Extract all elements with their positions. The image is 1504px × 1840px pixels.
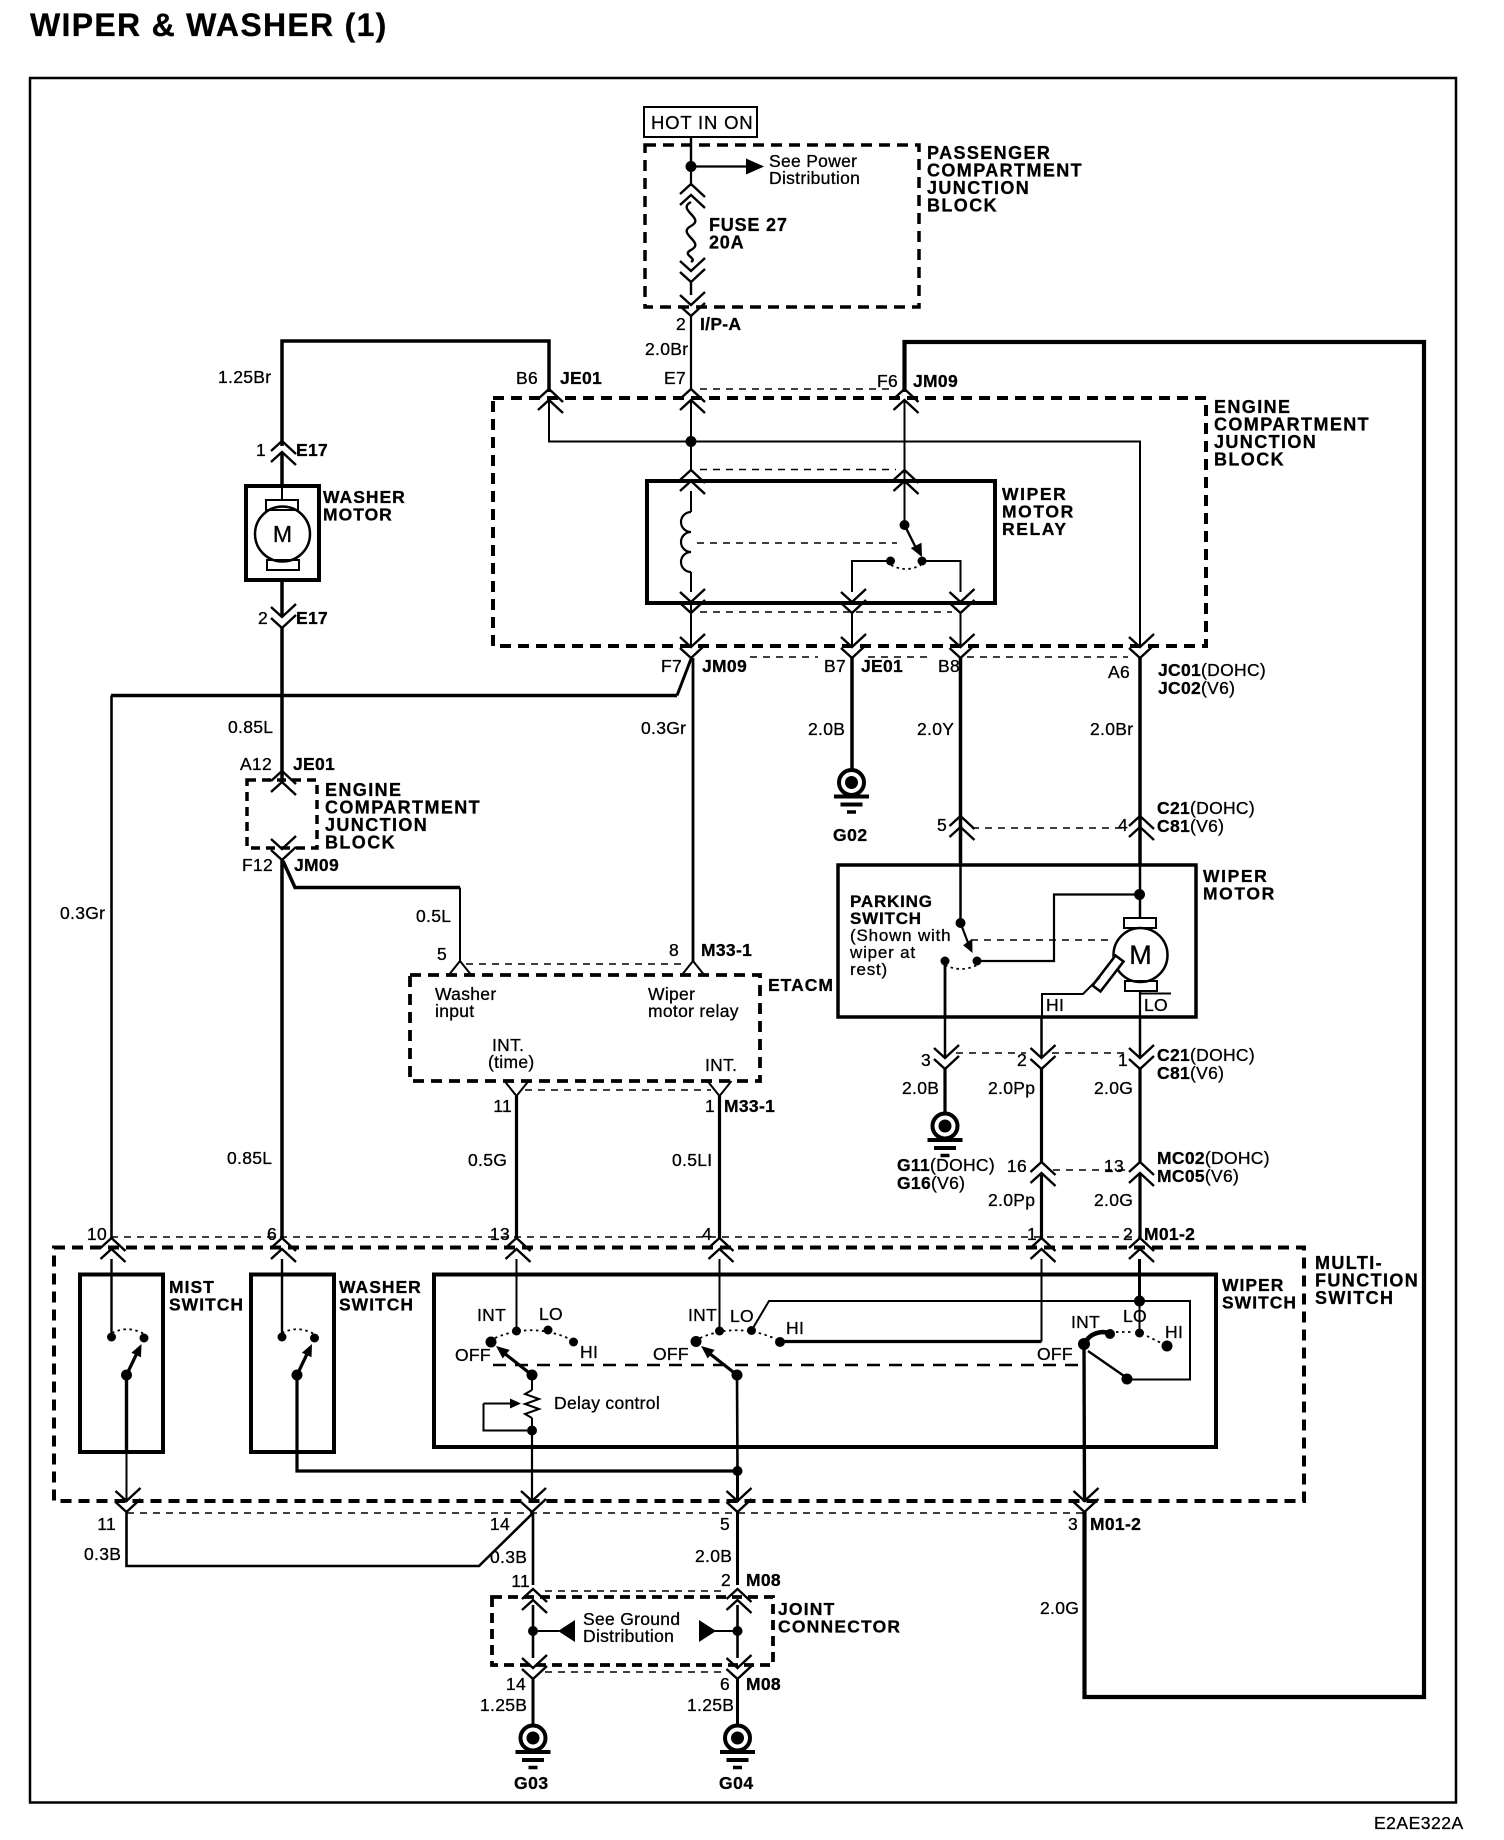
ETACM box [410, 975, 760, 1081]
wire E7 internal [690, 399, 692, 442]
svg-text:G02: G02 [833, 825, 868, 845]
HI terminal notch [1042, 977, 1100, 1017]
svg-text:E17: E17 [296, 440, 328, 460]
connector 2 E17 [258, 604, 328, 628]
washer contact right [310, 1334, 319, 1343]
wire junction to A6 [691, 442, 1140, 649]
parking switch arm [961, 923, 973, 953]
wire wiper sw1 feed [516, 1259, 518, 1331]
node washer junction [733, 1466, 743, 1476]
delay control resistor [525, 1375, 539, 1431]
wire F7 branch diagonal [111, 659, 691, 696]
thin dashed connector row ECJB top [700, 388, 893, 390]
svg-text:I/P-A: I/P-A [700, 314, 741, 334]
wire E17-1 to motor [280, 452, 284, 486]
ground G02 [833, 770, 869, 845]
svg-text:Delay control: Delay control [554, 1393, 660, 1413]
connector F12 JM09 [242, 836, 339, 875]
wire coil to F7 [690, 603, 692, 648]
diagram code E2AE322A [1374, 1813, 1464, 1833]
label See Ground Distribution [583, 1609, 680, 1646]
label 0.3Gr right [641, 718, 686, 738]
label 2.0B bottom [695, 1546, 732, 1566]
label PARKING SWITCH [849, 892, 951, 979]
svg-text:F7: F7 [661, 656, 682, 676]
wire 2.0B to G11 [943, 1069, 946, 1114]
svg-text:1.25B: 1.25B [687, 1695, 734, 1715]
label 2.0Br [645, 339, 688, 359]
svg-text:MC02(DOHC): MC02(DOHC) [1157, 1148, 1270, 1168]
label LO sw1 [539, 1304, 563, 1324]
svg-text:MOTOR: MOTOR [1203, 884, 1276, 904]
wire washer feed top-left [282, 341, 549, 446]
ETACM pin 5 [437, 944, 472, 976]
wire motor to E17-2 [280, 580, 284, 617]
label WIPER MOTOR [1203, 866, 1276, 904]
label INT sw1 [477, 1305, 506, 1325]
fuse FUSE 27 20A [687, 202, 696, 262]
connector 13 M01-2 [490, 1224, 531, 1262]
wire parking switch feed [959, 866, 962, 923]
label OFF sw1 [455, 1345, 491, 1365]
thin dashed parking to motor link [971, 939, 1112, 941]
node JC right [733, 1626, 743, 1636]
svg-text:HI: HI [580, 1342, 598, 1362]
label 0.85L lower [227, 1148, 272, 1168]
label HI motor [1046, 995, 1064, 1015]
svg-text:F6: F6 [877, 371, 898, 391]
ground G11 G16 [897, 1114, 995, 1194]
svg-text:2.0G: 2.0G [1040, 1598, 1079, 1618]
svg-text:2.0B: 2.0B [695, 1546, 732, 1566]
svg-text:input: input [435, 1001, 474, 1021]
svg-text:G16(V6): G16(V6) [897, 1173, 965, 1193]
label ETACM [768, 975, 834, 995]
wire to B7 chevron [851, 613, 853, 648]
wire 1.25B right [736, 1679, 739, 1726]
thin dashed link 16-13 [1053, 1169, 1126, 1171]
connector 1 M01-2 [1027, 1224, 1056, 1262]
svg-text:0.5G: 0.5G [468, 1150, 507, 1170]
label MIST SWITCH [169, 1277, 244, 1315]
connector A6 JC01 JC02 [1108, 634, 1266, 698]
thin dashed relay actuator link [697, 542, 897, 544]
washer switch arm [297, 1344, 312, 1375]
svg-text:G11(DOHC): G11(DOHC) [897, 1155, 995, 1175]
connector 2 I/P-A [680, 292, 705, 316]
sw3 contact HI [1162, 1341, 1173, 1352]
connector relay B8 bottom [950, 589, 975, 613]
svg-text:E7: E7 [664, 368, 686, 388]
wire B8 2.0Y [959, 658, 963, 866]
thin dashed connector row M01-2 bottom [127, 1512, 1085, 1514]
wire HI to pin2 [1040, 1017, 1043, 1058]
svg-text:motor relay: motor relay [648, 1001, 739, 1021]
svg-text:E17: E17 [296, 608, 328, 628]
dotted arc sw1 [495, 1330, 570, 1339]
label ENGINE COMPARTMENT JUNCTION BLOCK [1214, 397, 1370, 470]
washer motor box [246, 486, 319, 580]
svg-text:M: M [273, 521, 292, 547]
svg-text:13: 13 [490, 1224, 510, 1244]
svg-text:2: 2 [676, 314, 686, 334]
svg-text:INT.: INT. [705, 1055, 737, 1075]
connector 14 M08 bottom [506, 1655, 547, 1694]
wire sw2 LO to pin1 route [752, 1301, 1140, 1331]
svg-text:HI: HI [786, 1318, 804, 1338]
dotted arc parking contacts [945, 965, 977, 969]
wire 0.85L lower [280, 860, 284, 1238]
relay switch arm [905, 525, 923, 557]
connector 2 M01-2 [1123, 1224, 1195, 1262]
wire 0.5G [515, 1096, 518, 1238]
label 0.3B mid [490, 1547, 527, 1567]
label 2 M08 [721, 1570, 781, 1590]
svg-text:1.25B: 1.25B [480, 1695, 527, 1715]
svg-text:4: 4 [1118, 815, 1128, 835]
wire JC right [736, 1605, 739, 1658]
label 2.0G lower [1094, 1190, 1133, 1210]
sw1 contact INT [512, 1327, 521, 1336]
label 0.5G [468, 1150, 507, 1170]
svg-text:A12: A12 [240, 754, 272, 774]
svg-text:20A: 20A [709, 233, 744, 253]
svg-text:11: 11 [511, 1571, 530, 1591]
passenger compartment junction block box [645, 145, 919, 307]
svg-text:B7: B7 [824, 656, 846, 676]
wire pin1 down and HI link [780, 1259, 1042, 1342]
dotted arc sw2 [700, 1330, 776, 1339]
label 1.25B left [480, 1695, 527, 1715]
connector 11 bottom [97, 1488, 140, 1534]
svg-text:11: 11 [493, 1096, 512, 1116]
connector 14 bottom [490, 1488, 546, 1534]
svg-text:LO: LO [1144, 995, 1168, 1015]
connector relay switch top [894, 470, 919, 494]
label WASHER SWITCH [339, 1277, 422, 1315]
sw2 contact OFF [691, 1336, 702, 1347]
wire 0.85L upper [280, 628, 284, 781]
connector B7 JE01 [824, 634, 903, 676]
sw3 pivot node [1122, 1374, 1133, 1385]
title [30, 7, 388, 43]
wire 0.3B down [532, 1513, 535, 1585]
svg-text:Distribution: Distribution [769, 168, 860, 188]
wire 0.3Gr to ETACM pin8 [692, 658, 695, 961]
connector 5 C21 [937, 815, 975, 840]
svg-text:13: 13 [1104, 1156, 1124, 1176]
label 0.3B left [84, 1544, 121, 1564]
svg-text:HI: HI [1165, 1322, 1183, 1342]
connector 16 MC02 [1007, 1156, 1056, 1186]
svg-text:16: 16 [1007, 1156, 1027, 1176]
sw1 pivot node [527, 1370, 538, 1381]
svg-text:14: 14 [506, 1674, 526, 1694]
ground G04 [719, 1726, 755, 1794]
wire junction to 5 [736, 1471, 739, 1502]
wire A6 2.0Br [1138, 658, 1142, 866]
wire fuse to I/P-A [690, 281, 692, 295]
label LO motor [1144, 995, 1168, 1015]
wire 1.25B left [532, 1679, 535, 1726]
connector 5 bottom [720, 1488, 752, 1534]
svg-text:B6: B6 [516, 368, 538, 388]
svg-text:1: 1 [256, 440, 266, 460]
connector E7 top [680, 389, 705, 413]
svg-text:SWITCH: SWITCH [1315, 1288, 1394, 1308]
wiper motor relay box [647, 481, 995, 603]
label INT [705, 1055, 737, 1075]
washer pivot node [292, 1370, 303, 1381]
sw2 pivot node [732, 1370, 743, 1381]
label 11 M08 [511, 1571, 530, 1591]
ground G03 [514, 1726, 551, 1794]
label 2.0G upper [1094, 1078, 1133, 1098]
wire wiper sw2 feed [719, 1259, 721, 1331]
svg-text:10: 10 [87, 1224, 107, 1244]
svg-text:LO: LO [539, 1304, 563, 1324]
label WASHER MOTOR [323, 487, 406, 525]
svg-text:SWITCH: SWITCH [339, 1295, 414, 1315]
svg-text:G04: G04 [719, 1773, 754, 1793]
svg-text:OFF: OFF [1037, 1344, 1073, 1364]
ETACM pin 1 M33-1 [705, 1081, 775, 1116]
dotted arc mist [112, 1329, 144, 1334]
mist switch arm [127, 1344, 142, 1375]
label PASSENGER COMPARTMENT JUNCTION BLOCK [927, 143, 1083, 216]
wire 2.0Pp lower [1040, 1173, 1043, 1238]
sw2 contact HI [775, 1337, 785, 1347]
svg-text:8: 8 [669, 940, 679, 960]
connector B6 JE01 [516, 368, 602, 413]
svg-text:(time): (time) [488, 1052, 535, 1072]
thin dashed link relay bottom pins [700, 611, 952, 613]
svg-text:5: 5 [720, 1514, 730, 1534]
wire washer output [297, 1375, 738, 1471]
mechanical gang dashed line [493, 1364, 1082, 1366]
thin dashed connector row M01-2 top [111, 1236, 1140, 1238]
connector fuse top [680, 184, 705, 208]
thin dashed link relay top pins [700, 469, 896, 471]
svg-text:G03: G03 [514, 1773, 549, 1793]
thin dashed link pins 11-1 [525, 1089, 711, 1091]
parking switch common node [956, 918, 966, 928]
svg-text:2.0B: 2.0B [808, 719, 845, 739]
see ground arrow right [699, 1620, 733, 1642]
label Washer input [435, 984, 496, 1021]
sw3 arm to pivot [1088, 1351, 1127, 1378]
wire relay left contact to B7 [852, 561, 891, 592]
wire mist feed [110, 1259, 112, 1337]
wire 0.3B route [127, 1512, 534, 1566]
svg-text:6: 6 [720, 1674, 730, 1694]
HOT IN ON box [644, 107, 757, 137]
svg-text:0.3B: 0.3B [490, 1547, 527, 1567]
svg-text:6: 6 [267, 1224, 277, 1244]
sw3 contact INT [1105, 1329, 1115, 1339]
label HI sw3 [1165, 1322, 1183, 1342]
svg-text:M01-2: M01-2 [1144, 1224, 1195, 1244]
label WIPER MOTOR RELAY [1002, 484, 1075, 539]
svg-text:BLOCK: BLOCK [325, 833, 396, 853]
svg-text:Distribution: Distribution [583, 1626, 674, 1646]
svg-text:F12: F12 [242, 855, 273, 875]
wire I/P-A to E7 [690, 315, 692, 390]
sw2 arm [701, 1346, 737, 1375]
wire 2.0G lower [1138, 1173, 1141, 1238]
connector 4 M01-2 [702, 1224, 734, 1262]
wire node to fuse [690, 166, 692, 186]
svg-text:MOTOR: MOTOR [323, 505, 393, 525]
svg-text:2: 2 [258, 608, 268, 628]
wire 2.0G upper [1138, 1069, 1141, 1162]
connector 2 C21 [1017, 1045, 1056, 1070]
svg-text:WIPER & WASHER (1): WIPER & WASHER (1) [30, 7, 388, 43]
svg-text:HOT IN ON: HOT IN ON [651, 112, 753, 133]
label INT sw3 [1071, 1312, 1100, 1332]
svg-text:1: 1 [705, 1096, 715, 1116]
label 0.5L [416, 906, 451, 926]
connector relay coil bottom [680, 589, 705, 613]
connector 13 MC02 MC05 [1104, 1148, 1270, 1186]
see power distribution arrow [696, 159, 764, 175]
connector F6 JM09 [877, 371, 958, 413]
connector 3 M01-2 bottom [1068, 1488, 1141, 1534]
svg-text:2.0Br: 2.0Br [645, 339, 688, 359]
connector F7 JM09 [661, 634, 747, 676]
svg-text:rest): rest) [850, 960, 888, 979]
svg-text:JE01: JE01 [293, 754, 335, 774]
washer switch box [251, 1275, 334, 1453]
wire mist output [125, 1375, 128, 1502]
svg-text:SWITCH: SWITCH [1222, 1293, 1297, 1313]
wire JC left [532, 1605, 535, 1658]
svg-text:14: 14 [490, 1514, 510, 1534]
wire 2.0Pp upper [1040, 1069, 1043, 1162]
node power junction [686, 161, 697, 172]
svg-text:1.25Br: 1.25Br [218, 367, 271, 387]
connector A12 JE01 [240, 754, 335, 795]
connector relay coil top [680, 470, 705, 494]
wire LO to pin1 [1139, 1017, 1142, 1058]
label 2.0G loop [1040, 1598, 1079, 1618]
svg-text:0.85L: 0.85L [228, 717, 273, 737]
svg-text:JC02(V6): JC02(V6) [1158, 678, 1235, 698]
label ECJB small [325, 780, 481, 853]
dotted arc sw3 [1116, 1332, 1161, 1343]
svg-text:INT: INT [1071, 1312, 1100, 1332]
thin dashed link M08 top [545, 1590, 725, 1592]
thin dashed link 5-4 [972, 827, 1128, 829]
svg-text:BLOCK: BLOCK [1214, 450, 1285, 470]
connector B8 [938, 634, 975, 676]
connector 11 M08 top [522, 1589, 547, 1613]
wiper switch box [434, 1275, 1216, 1448]
connector 3 C21 [921, 1045, 959, 1070]
svg-text:0.5LI: 0.5LI [672, 1150, 712, 1170]
connector 1 C21 C81 [1118, 1045, 1255, 1083]
dotted arc washer [282, 1329, 314, 1334]
engine compartment junction block box [493, 398, 1206, 646]
washer contact left [278, 1333, 287, 1342]
label 2.0Pp lower [988, 1190, 1035, 1210]
node motor feed junction [1134, 889, 1145, 900]
svg-text:E2AE322A: E2AE322A [1374, 1813, 1464, 1833]
svg-text:4: 4 [702, 1224, 712, 1244]
sw1 contact LO [544, 1326, 553, 1335]
label 2.0B g11 [902, 1078, 939, 1098]
label JOINT CONNECTOR [778, 1599, 901, 1637]
svg-text:M01-2: M01-2 [1090, 1514, 1141, 1534]
label See Power Distribution [769, 151, 860, 188]
wire motor feed [1139, 866, 1142, 918]
label 2.0B [808, 719, 845, 739]
wire motor bottom [1139, 991, 1141, 1017]
label 1.25B right [687, 1695, 734, 1715]
svg-text:0.85L: 0.85L [227, 1148, 272, 1168]
mist contact left [107, 1333, 116, 1342]
svg-text:JC01(DOHC): JC01(DOHC) [1158, 660, 1266, 680]
relay contact right [918, 557, 927, 566]
joint connector box [492, 1597, 773, 1665]
wire to B8 chevron [960, 613, 962, 648]
node JC left [528, 1626, 538, 1636]
svg-text:C81(V6): C81(V6) [1157, 1063, 1224, 1083]
svg-text:JE01: JE01 [560, 368, 602, 388]
label INT time [488, 1035, 535, 1072]
wiper motor box [838, 865, 1196, 1017]
svg-text:2.0B: 2.0B [902, 1078, 939, 1098]
svg-text:HI: HI [1046, 995, 1064, 1015]
label 0.85L upper [228, 717, 273, 737]
svg-text:JM09: JM09 [913, 371, 958, 391]
svg-text:M33-1: M33-1 [724, 1096, 775, 1116]
label HI sw1 [580, 1342, 598, 1362]
wire parking right contact to motor node [977, 895, 1138, 962]
label 2.0Br A6 [1090, 719, 1133, 739]
svg-text:JM09: JM09 [294, 855, 339, 875]
label 0.3Gr left [60, 903, 105, 923]
wire pin2 down [1138, 1259, 1141, 1301]
thin dashed connector row ECJB bottom [750, 656, 1128, 658]
svg-text:LO: LO [1123, 1306, 1147, 1326]
wire 0.3Gr left vertical [110, 696, 113, 1239]
svg-text:OFF: OFF [653, 1344, 689, 1364]
svg-text:RELAY: RELAY [1002, 519, 1068, 539]
delay output node [527, 1426, 537, 1436]
wire sw2 output [736, 1375, 739, 1471]
wire parking left contact down [944, 961, 947, 1017]
label 2 I/P-A [676, 314, 741, 334]
node ECJB junction [686, 436, 697, 447]
dotted arc relay contacts [891, 565, 921, 569]
wire B6 internal [549, 399, 686, 442]
engine compartment junction block small box [247, 780, 317, 848]
connector 2 M08 top [727, 1589, 752, 1613]
svg-text:2.0G: 2.0G [1094, 1078, 1133, 1098]
svg-text:2.0Pp: 2.0Pp [988, 1190, 1035, 1210]
delay control arrow [484, 1399, 528, 1431]
svg-text:C21(DOHC): C21(DOHC) [1157, 798, 1255, 818]
label HI sw2 [786, 1318, 804, 1338]
wire parking to pin3 [944, 1017, 947, 1058]
relay coil [681, 491, 691, 592]
svg-text:A6: A6 [1108, 662, 1130, 682]
label FUSE 27 20A [709, 215, 788, 253]
LO terminal notch [1140, 993, 1171, 995]
label WIPER SWITCH [1222, 1275, 1297, 1313]
svg-text:1: 1 [1027, 1224, 1037, 1244]
